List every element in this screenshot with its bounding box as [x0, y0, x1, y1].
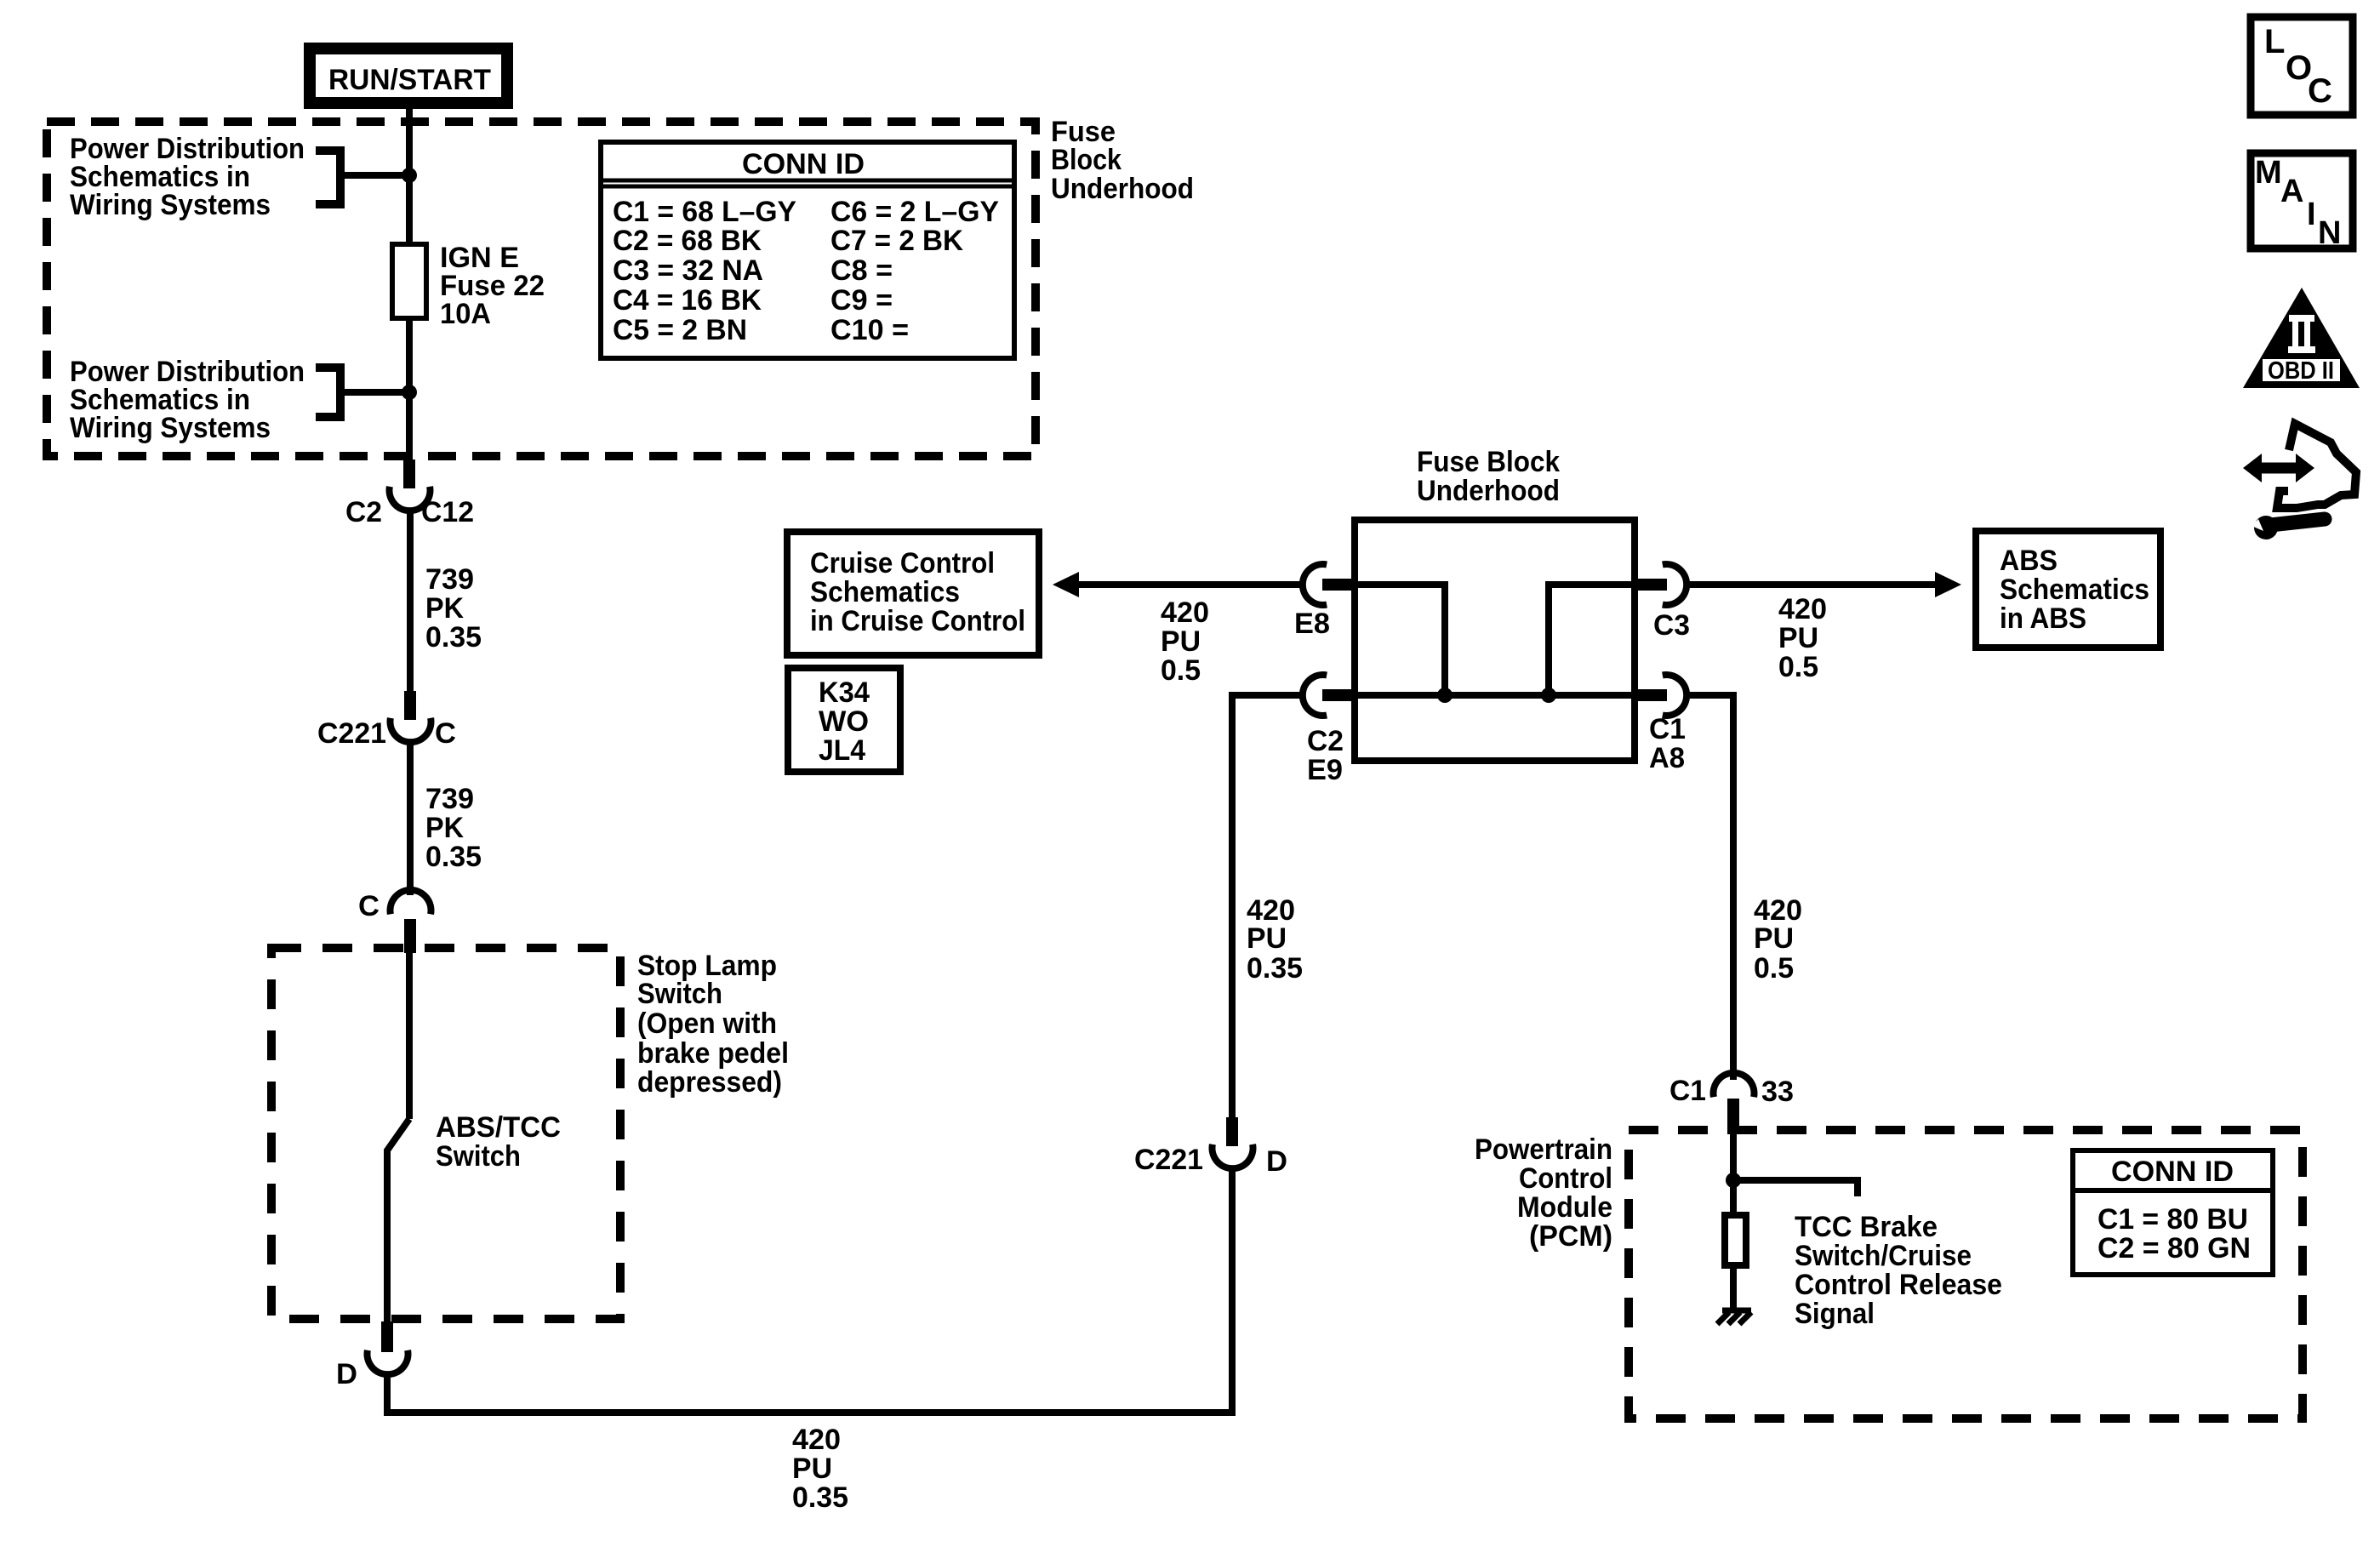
- svg-text:420: 420: [792, 1424, 841, 1456]
- box RUN/START (hot in run/start feed): [310, 49, 507, 103]
- node junction tcc signal: [1726, 1173, 1741, 1188]
- svg-text:739: 739: [425, 563, 474, 596]
- svg-text:C2 = 80 GN: C2 = 80 GN: [2097, 1232, 2251, 1264]
- wire C2-E9 to C221-D: [1232, 695, 1303, 1118]
- svg-text:K34: K34: [819, 676, 870, 709]
- svg-text:C2: C2: [345, 496, 382, 528]
- connector C221-C female arc: [391, 718, 431, 742]
- arrowhead to abs schematics: [1935, 572, 1961, 597]
- svg-text:C9 =: C9 =: [830, 284, 893, 317]
- wire internal C3 branch: [1549, 585, 1635, 695]
- svg-text:PU: PU: [1754, 922, 1794, 955]
- connector C male pin into switch box: [404, 919, 416, 953]
- svg-text:10A: 10A: [440, 298, 491, 330]
- svg-text:0.5: 0.5: [1754, 952, 1794, 985]
- svg-text:PU: PU: [1778, 622, 1818, 654]
- box Cruise Control Schematics in Cruise Control: [787, 532, 1039, 655]
- connector C3 male pin: [1638, 579, 1667, 591]
- wire C2-C12 to C221-C: [407, 511, 414, 693]
- svg-text:C8 =: C8 =: [830, 254, 893, 287]
- svg-text:WO: WO: [819, 705, 869, 738]
- svg-text:Block: Block: [1051, 144, 1122, 176]
- node junction upper: [402, 168, 417, 183]
- connector D female arc (open up): [368, 1350, 408, 1374]
- dashed box power distribution: [47, 122, 1036, 456]
- svg-text:OBD II: OBD II: [2268, 357, 2334, 385]
- svg-text:M: M: [2255, 155, 2282, 191]
- svg-text:0.35: 0.35: [425, 621, 482, 654]
- svg-text:PK: PK: [425, 812, 464, 844]
- svg-text:PU: PU: [1247, 922, 1287, 955]
- dashed box powertrain control module: [1629, 1130, 2303, 1418]
- svg-text:D: D: [1266, 1145, 1287, 1178]
- connector C1-33 female arc (open down): [1714, 1073, 1755, 1097]
- svg-text:C1 = 80 BU: C1 = 80 BU: [2097, 1203, 2248, 1236]
- svg-text:D: D: [336, 1358, 357, 1390]
- svg-text:Control Release: Control Release: [1795, 1269, 2002, 1301]
- table CONN ID (fuse block underhood): [601, 142, 1014, 358]
- svg-text:A8: A8: [1649, 742, 1685, 774]
- connector C1-A8 male pin: [1638, 689, 1667, 701]
- svg-text:Underhood: Underhood: [1417, 475, 1560, 507]
- bracket upper: [316, 151, 340, 204]
- svg-text:Switch: Switch: [436, 1140, 521, 1173]
- svg-text:0.35: 0.35: [792, 1481, 848, 1514]
- svg-text:in Cruise Control: in Cruise Control: [810, 605, 1025, 637]
- svg-text:C3 = 32 NA: C3 = 32 NA: [613, 254, 763, 287]
- svg-text:L: L: [2264, 23, 2285, 60]
- svg-text:A: A: [2280, 174, 2303, 209]
- bracket lower: [316, 368, 340, 417]
- wire from RUN/START down to connector C2-C12: [406, 107, 413, 461]
- dashed box stop lamp switch: [271, 948, 620, 1319]
- wire resistor to ground: [1730, 1269, 1737, 1310]
- wire D to C221-D (bottom run): [387, 1167, 1232, 1413]
- svg-text:C12: C12: [421, 496, 474, 528]
- box K34 WO JL4 (rpo codes): [788, 668, 900, 772]
- svg-text:PK: PK: [425, 592, 464, 625]
- connector C3 female arc (open left): [1663, 564, 1687, 605]
- wire tcc signal tap: [1733, 1180, 1858, 1196]
- ground (chassis): [1722, 1308, 1751, 1314]
- svg-text:0.35: 0.35: [425, 841, 482, 873]
- svg-text:TCC Brake: TCC Brake: [1795, 1211, 1938, 1243]
- svg-text:Schematics: Schematics: [810, 576, 960, 608]
- svg-text:420: 420: [1161, 596, 1209, 629]
- icon MAIN box: [2251, 153, 2353, 248]
- wire bracket lower to main feed: [340, 389, 409, 396]
- svg-text:PU: PU: [792, 1453, 832, 1485]
- svg-text:C1 = 68 L–GY: C1 = 68 L–GY: [613, 196, 796, 228]
- svg-text:(PCM): (PCM): [1529, 1220, 1612, 1253]
- svg-text:Control: Control: [1519, 1162, 1612, 1195]
- connector E8 female arc (open right): [1303, 564, 1327, 605]
- wire C3 to abs arrow: [1687, 581, 1937, 588]
- connector D male pin: [381, 1321, 393, 1352]
- wire E8 to cruise control arrow: [1077, 581, 1303, 588]
- svg-text:C1: C1: [1649, 713, 1686, 745]
- svg-text:brake pedel: brake pedel: [637, 1037, 789, 1070]
- svg-text:in ABS: in ABS: [2000, 602, 2086, 635]
- svg-text:C: C: [358, 890, 380, 922]
- svg-text:0.35: 0.35: [1247, 952, 1303, 985]
- icon LOC box: [2251, 17, 2353, 115]
- svg-text:C7 = 2 BK: C7 = 2 BK: [830, 225, 963, 257]
- svg-text:RUN/START: RUN/START: [328, 64, 491, 96]
- svg-text:Cruise Control: Cruise Control: [810, 547, 995, 579]
- svg-text:C3: C3: [1653, 609, 1690, 642]
- svg-text:Wiring Systems: Wiring Systems: [70, 412, 271, 444]
- svg-text:C10 =: C10 =: [830, 314, 909, 346]
- connector C2-E9 female arc (open right): [1303, 675, 1327, 716]
- connector C female arc (open down): [391, 890, 431, 914]
- svg-text:ABS/TCC: ABS/TCC: [436, 1111, 561, 1144]
- svg-text:JL4: JL4: [819, 734, 865, 767]
- arrowhead to cruise control schematics: [1053, 572, 1079, 597]
- box ABS Schematics in ABS: [1976, 531, 2160, 648]
- svg-text:Switch: Switch: [637, 978, 722, 1010]
- box fuse block underhood: [1355, 520, 1635, 761]
- svg-text:C2 = 68 BK: C2 = 68 BK: [613, 225, 762, 257]
- svg-text:C6 = 2 L–GY: C6 = 2 L–GY: [830, 196, 999, 228]
- wire C1-A8 down to pcm C1-33: [1687, 695, 1733, 1080]
- svg-text:Switch/Cruise: Switch/Cruise: [1795, 1240, 1972, 1272]
- svg-text:depressed): depressed): [637, 1066, 782, 1099]
- svg-text:Wiring Systems: Wiring Systems: [70, 189, 271, 221]
- svg-text:Module: Module: [1517, 1191, 1612, 1224]
- svg-text:0.5: 0.5: [1778, 651, 1818, 683]
- connector C1-33 male pin: [1727, 1099, 1739, 1131]
- svg-text:I: I: [2307, 197, 2316, 232]
- connector C1-A8 female arc (open left): [1663, 675, 1687, 716]
- svg-text:CONN ID: CONN ID: [2111, 1156, 2234, 1188]
- svg-text:0.5: 0.5: [1161, 654, 1201, 687]
- wire internal E8 branch: [1355, 585, 1445, 695]
- svg-text:ABS: ABS: [2000, 545, 2058, 577]
- connector C2-E9 male pin: [1322, 689, 1351, 701]
- connector C2-C12 female arc: [390, 487, 431, 511]
- node internal junction left: [1437, 688, 1453, 703]
- table CONN ID (pcm): [2073, 1150, 2273, 1275]
- svg-text:Powertrain: Powertrain: [1475, 1133, 1612, 1166]
- wire C221-C to switch connector C: [407, 743, 414, 895]
- svg-text:C221: C221: [1134, 1144, 1203, 1176]
- wire pcm input: [1730, 1130, 1737, 1212]
- icon OBD II triangle: [2243, 288, 2360, 388]
- wire bracket upper to main feed: [340, 172, 409, 179]
- svg-text:(Open with: (Open with: [637, 1007, 777, 1040]
- connector E8 male pin: [1322, 579, 1351, 591]
- svg-text:C5 = 2 BN: C5 = 2 BN: [613, 314, 747, 346]
- svg-text:C2: C2: [1307, 725, 1344, 757]
- svg-text:Schematics: Schematics: [2000, 574, 2149, 606]
- connector C2-C12 male pin: [403, 459, 415, 488]
- svg-text:N: N: [2318, 215, 2341, 251]
- resistor (pcm pull-up): [1725, 1215, 1746, 1265]
- svg-text:CONN ID: CONN ID: [742, 148, 865, 180]
- svg-text:Underhood: Underhood: [1051, 173, 1194, 205]
- svg-text:420: 420: [1778, 593, 1827, 625]
- svg-text:33: 33: [1761, 1076, 1794, 1108]
- connector C221-D male pin: [1226, 1117, 1238, 1146]
- svg-text:C221: C221: [317, 717, 386, 750]
- svg-text:C: C: [2308, 72, 2332, 110]
- node junction lower: [402, 385, 417, 400]
- svg-text:Signal: Signal: [1795, 1298, 1875, 1330]
- wire switch input: [406, 952, 413, 1119]
- icon data link connector (arrow and vehicle): [2260, 463, 2297, 474]
- svg-text:C1: C1: [1669, 1075, 1706, 1107]
- icon wrench: [2254, 516, 2278, 539]
- svg-text:C: C: [435, 717, 456, 750]
- fuse IGN E Fuse 22 10A: [392, 244, 426, 318]
- connector C221-C male pin: [404, 691, 416, 720]
- switch ABS/TCC contact (angled): [387, 1119, 409, 1324]
- svg-text:739: 739: [425, 783, 474, 815]
- wire internal bus E9 to A8: [1355, 692, 1635, 699]
- svg-text:Fuse Block: Fuse Block: [1417, 446, 1560, 478]
- connector C221-D female arc (open up): [1213, 1144, 1253, 1168]
- svg-text:E9: E9: [1307, 754, 1343, 786]
- svg-text:C4 = 16 BK: C4 = 16 BK: [613, 284, 762, 317]
- svg-text:E8: E8: [1294, 608, 1330, 640]
- node internal junction right: [1541, 688, 1556, 703]
- svg-text:PU: PU: [1161, 625, 1201, 658]
